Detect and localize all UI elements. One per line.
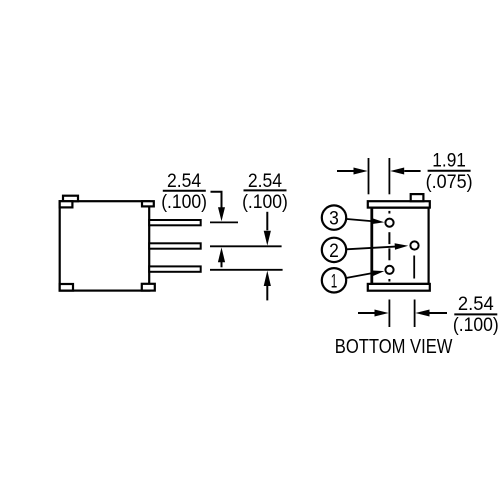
svg-text:2.54: 2.54 [458,293,494,315]
top-left adjustment screw tab [63,196,78,202]
bottom-view main body [372,208,429,284]
bottom-right corner standoff [142,284,155,291]
extension line at lead 3 centerline [210,269,283,271]
up arrow to lead 2 centerline (dim 1) [218,247,225,267]
arrow from callout 3 to pin 3 [347,218,385,224]
pin 1 (bottom view) [385,266,393,274]
trimmer side-view body outline [60,201,150,290]
svg-text:1.91: 1.91 [432,149,466,171]
balloon callout 1 [322,268,346,292]
small tab on top flange [411,194,424,201]
arrow from callout 2 to pin 2 [346,243,408,249]
balloon callout 3 [322,205,346,229]
leader with down arrow from second label to lead 2 centerline [264,212,271,246]
top dim extension line at body left edge [368,158,370,194]
dimension label 2.54 (.100) bottom-right [453,293,499,336]
svg-text:2: 2 [329,240,339,262]
top-left corner standoff [60,201,73,207]
top dim extension line at centerline [388,158,390,194]
bottom-view top flange [368,201,430,207]
svg-text:2.54: 2.54 [248,170,282,192]
svg-text:(.075): (.075) [426,171,473,193]
top dim right arrow [390,168,420,175]
svg-text:2.54: 2.54 [167,170,201,192]
dimension label 2.54 (.100) upper-right of side view [242,170,288,213]
bottom dim right arrow [415,310,447,317]
centerline below pin 2 [413,256,415,279]
up arrow to lead 3 centerline (dim 2) [264,271,271,301]
top dim left arrow [337,168,368,175]
bottom dim left arrow [358,310,389,317]
bottom-view body left edge (thick) [370,208,373,284]
top-right corner standoff [142,201,154,206]
dash-dot centerline through pins 1 and 3 [388,211,390,282]
extension line at lead 1 centerline [210,221,238,223]
dimension label 1.91 (.075) [426,149,473,193]
bottom-view bottom flange [368,284,430,291]
lead 1 (top pin, side view) [149,220,201,225]
extension line at lead 2 centerline [210,245,282,247]
dimension label 2.54 (.100) upper-left [161,170,207,213]
bottom dim extension line at centerline [388,300,390,328]
bottom-left corner standoff [60,284,73,291]
arrow from callout 1 to pin 1 [347,270,385,278]
lead 2 (middle pin, side view) [149,243,201,248]
svg-text:BOTTOM VIEW: BOTTOM VIEW [335,336,453,358]
bottom dim extension line at pin 2 [414,300,416,328]
pin 3 (bottom view) [385,219,393,227]
svg-text:(.100): (.100) [242,191,288,213]
balloon callout 2 [322,238,346,262]
lead 3 (bottom pin, side view) [149,266,201,271]
svg-text:3: 3 [329,208,339,230]
leader from upper-left label with down arrow to lead 1 centerline [211,192,226,222]
svg-text:(.100): (.100) [161,191,207,213]
svg-text:1: 1 [331,270,338,292]
svg-text:(.100): (.100) [453,314,499,336]
pin 2 (bottom view) [410,241,418,249]
